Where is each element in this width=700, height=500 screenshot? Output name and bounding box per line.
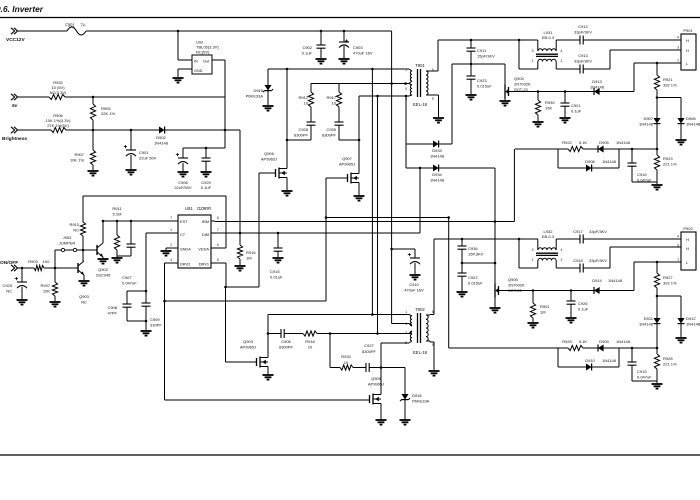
wire sense ch2 [499, 262, 635, 291]
label R907 [70, 152, 85, 162]
svg-text:R912: R912 [298, 95, 308, 100]
label R917 [326, 95, 336, 105]
bottom border rule [0, 454, 700, 456]
diode D933 [433, 141, 439, 148]
label D933 [430, 148, 445, 158]
ground C921 [560, 118, 571, 123]
diode D907 [654, 98, 661, 124]
svg-text:3: 3 [405, 331, 407, 335]
junction B+ C910 [390, 248, 393, 251]
label C915 [270, 269, 283, 279]
svg-text:D918: D918 [412, 393, 422, 398]
svg-text:H: H [686, 246, 689, 251]
labels R925 D909 [562, 339, 631, 344]
svg-text:D933: D933 [432, 148, 442, 153]
svg-text:10K: 10K [43, 288, 50, 293]
svg-text:R928: R928 [663, 356, 673, 361]
svg-text:1N4148: 1N4148 [602, 159, 617, 164]
capacitor C935 [335, 122, 344, 140]
wire to D908 [657, 98, 681, 119]
ground R937 [50, 302, 61, 307]
ground C915 [273, 258, 284, 263]
label D902 [154, 135, 169, 145]
junction C908 bottom [145, 320, 148, 323]
label C906 [174, 180, 192, 190]
svg-text:DRV1: DRV1 [199, 262, 209, 267]
svg-text:1M: 1M [540, 309, 546, 314]
wire sense ch1 [509, 63, 635, 92]
svg-text:D911: D911 [644, 316, 654, 321]
wire DRV2 route [165, 263, 175, 400]
svg-text:1N4148: 1N4148 [616, 339, 631, 344]
label D914 [592, 278, 623, 283]
label R923 [663, 156, 677, 166]
wire gate chain row [268, 332, 412, 335]
label C922 [468, 275, 483, 285]
svg-text:3: 3 [532, 49, 534, 53]
svg-text:Q907: Q907 [342, 156, 353, 161]
label D906 [585, 159, 617, 164]
svg-text:NC(5V): NC(5V) [196, 50, 210, 55]
resistor R905 [90, 104, 95, 120]
capacitor C927 [366, 363, 369, 372]
junction C911/C923 [470, 63, 473, 66]
jumper J953 [55, 248, 83, 251]
label R933 [341, 354, 351, 365]
svg-text:0.1uF: 0.1uF [571, 108, 582, 113]
junction C902 [320, 30, 323, 33]
svg-text:DIM: DIM [202, 232, 209, 237]
ground R928 [652, 384, 663, 389]
svg-text:392 1%: 392 1% [663, 82, 677, 87]
svg-text:0.01uF: 0.01uF [270, 274, 283, 279]
svg-text:Out: Out [203, 60, 210, 64]
resistor R912 [308, 84, 313, 123]
svg-text:EB-0.3: EB-0.3 [542, 234, 555, 239]
svg-text:22uF 50V: 22uF 50V [139, 155, 157, 160]
label C921 [571, 103, 582, 113]
ground Q903 [263, 375, 274, 380]
svg-text:Q903: Q903 [79, 294, 90, 299]
wire ch2 resonant line [434, 238, 538, 240]
svg-text:9: 9 [432, 97, 434, 101]
svg-text:AP9965J: AP9965J [240, 344, 256, 349]
mosfet Q905 2N7002K [495, 284, 499, 298]
svg-text:C925: C925 [2, 283, 12, 288]
svg-text:C923: C923 [477, 78, 487, 83]
svg-text:T901: T901 [415, 63, 425, 68]
transformer T901 [409, 69, 430, 97]
junction C925 [21, 267, 24, 270]
svg-text:8300PF: 8300PF [279, 344, 294, 349]
fuse F901 [67, 27, 86, 35]
junction gate chain [267, 332, 332, 335]
label C916 [637, 172, 652, 182]
label C936 [468, 246, 484, 256]
svg-text:H: H [686, 48, 689, 53]
svg-text:R937: R937 [40, 283, 50, 288]
svg-text:R903: R903 [28, 259, 38, 264]
wire Q906 source [286, 180, 288, 190]
svg-text:D934: D934 [432, 172, 442, 177]
svg-text:C907: C907 [122, 275, 132, 280]
svg-text:15K: 15K [545, 105, 552, 110]
wire to U92 IN [178, 31, 192, 60]
wire VCC12V to fuse [18, 30, 67, 32]
wire C917 to P902 pin4 [583, 238, 681, 240]
wire L931 split [519, 40, 538, 69]
junction R930 [537, 90, 540, 93]
wire sense line 2 [215, 149, 514, 222]
ground R916 [235, 266, 246, 271]
ground Q902 [98, 259, 109, 264]
svg-text:VCC12V: VCC12V [6, 37, 25, 43]
capacitor C922 [458, 263, 467, 291]
label D918 [412, 393, 430, 403]
svg-text:NC: NC [81, 299, 87, 304]
svg-text:P6KE33A: P6KE33A [246, 93, 264, 98]
wire mid node [452, 63, 505, 65]
ground T901 secondary [433, 118, 444, 123]
svg-text:SNDA: SNDA [180, 247, 191, 252]
mosfet Q906 AP9965J [276, 166, 288, 180]
label D910 [585, 358, 617, 363]
label R912 [298, 95, 308, 105]
capacitor C926 [567, 291, 576, 318]
junction R921 bottom [656, 96, 659, 99]
top border rule [0, 17, 700, 19]
svg-text:R911: R911 [112, 206, 122, 211]
label R901 [540, 304, 550, 314]
svg-text:C935: C935 [326, 127, 336, 132]
svg-text:5.1M: 5.1M [113, 211, 122, 216]
label C912 [574, 24, 592, 34]
capacitor C909 [142, 303, 151, 330]
label C917 [573, 229, 607, 234]
svg-text:5.1K: 5.1K [579, 339, 588, 344]
wire sense row ch1 [515, 148, 657, 150]
svg-text:7: 7 [170, 216, 172, 220]
junction drv2 [163, 300, 166, 303]
label Q905 [508, 277, 525, 293]
connector P902 [681, 232, 696, 270]
label F901 7A [65, 23, 85, 28]
svg-text:R922: R922 [562, 140, 572, 145]
B+ bus vertical [392, 31, 409, 324]
junction C936/C922 [461, 262, 464, 265]
resistor R937 [52, 268, 57, 301]
ground C901 [126, 170, 137, 175]
junction R928 top [656, 347, 659, 350]
wire D910 bypass [558, 348, 619, 367]
resistor R933 [340, 365, 353, 370]
wire C912 to P901 pin4 [583, 39, 681, 41]
resistor R901 [530, 291, 535, 323]
svg-text:D908: D908 [686, 116, 696, 121]
ground R911/C907 [112, 258, 123, 263]
junction pin3 bus [376, 95, 379, 98]
junction C935/drain [358, 139, 361, 142]
svg-text:D905: D905 [599, 140, 609, 145]
wire Q909 gate line [165, 399, 370, 400]
ground Q909 [376, 420, 387, 425]
svg-text:R918: R918 [305, 339, 315, 344]
label Q903 NC [79, 294, 90, 304]
junction crossbar B+ [390, 82, 407, 85]
svg-text:NC: NC [73, 227, 79, 232]
transistor Q902 2SC945 [97, 240, 103, 257]
connector ON/OFF input [0, 260, 18, 271]
junction R923 top [656, 148, 659, 151]
wire 5v to R932 [18, 96, 49, 98]
svg-text:22uF/50V: 22uF/50V [174, 185, 192, 190]
U92 pin labels [194, 60, 210, 73]
svg-text:0.015uF: 0.015uF [468, 280, 483, 285]
capacitor C907 [117, 221, 136, 256]
diode D934 [433, 165, 439, 172]
ground D908 [676, 140, 687, 145]
junction EST node [102, 220, 133, 223]
junction rail cap [205, 129, 227, 150]
wire L932 pin2 out [556, 267, 580, 269]
svg-text:5v: 5v [12, 103, 18, 109]
svg-text:C918: C918 [573, 258, 583, 263]
wire Q907 drain [358, 96, 360, 171]
diode D913 [594, 88, 600, 95]
junction Brightness/R907 [92, 129, 95, 132]
svg-text:2: 2 [170, 243, 172, 247]
svg-text:NC: NC [6, 288, 12, 293]
wire Q902 emitter [102, 257, 104, 258]
svg-text:4: 4 [677, 36, 679, 40]
ground C922 [457, 292, 468, 297]
P901 pin labels [686, 38, 689, 66]
wire Q903 source [267, 369, 269, 374]
label C935 [322, 127, 337, 137]
wire D915 to gnd [267, 91, 269, 105]
wire Q903 drain [267, 315, 269, 356]
junction nodeA [286, 68, 374, 71]
capacitor C916 [628, 149, 658, 182]
junction C908 top [145, 290, 148, 293]
label R910 [69, 222, 79, 232]
wire jumper riser [54, 250, 56, 268]
wire D906 bypass [558, 149, 619, 168]
wire DRV1 route [215, 173, 276, 287]
junction mid node ch2 [494, 262, 497, 265]
ground D915 [263, 106, 274, 111]
capacitor C921 [561, 92, 570, 118]
label R937 [40, 283, 50, 293]
svg-text:0.015uF: 0.015uF [477, 83, 492, 88]
capacitor C915 [274, 233, 283, 257]
svg-text:1N4148: 1N4148 [686, 321, 700, 326]
svg-text:C926: C926 [578, 301, 588, 306]
capacitor C923 [467, 64, 476, 94]
label C901 [139, 150, 157, 160]
capacitor C929 [202, 148, 211, 171]
svg-text:Brightness: Brightness [2, 136, 27, 142]
wire fuse to B+ corner [86, 30, 392, 32]
label D911 [639, 316, 654, 326]
diode D911 [654, 296, 661, 324]
capacitor C906b [281, 329, 284, 338]
wire D915 drop [267, 69, 269, 85]
wire L931 pin2 out [556, 68, 580, 70]
wire D918 gnd [404, 400, 406, 419]
svg-text:JUMPER: JUMPER [59, 240, 76, 245]
junction C916 [631, 148, 634, 151]
svg-text:10: 10 [308, 344, 313, 349]
wire DIM line [215, 168, 420, 233]
svg-text:D907: D907 [643, 116, 653, 121]
svg-text:D912: D912 [686, 316, 696, 321]
ground C910 [410, 275, 421, 280]
resistor R907 [90, 130, 95, 170]
wire T901 pin1 node line [268, 69, 412, 71]
svg-text:IBM: IBM [202, 219, 209, 224]
capacitor C918 [580, 264, 583, 273]
capacitor C902 [317, 31, 326, 58]
svg-text:1: 1 [405, 68, 407, 72]
capacitor C906 electrolytic [176, 148, 188, 171]
wire P902 L [634, 261, 681, 263]
label Q906 [261, 151, 277, 161]
P902 pin numbers [677, 235, 679, 262]
ground Q905 [490, 308, 501, 313]
svg-text:AP9965J: AP9965J [368, 381, 384, 386]
mosfet Q903 AP9965J [257, 355, 269, 369]
svg-text:C912: C912 [578, 24, 588, 29]
label C927 [362, 343, 377, 354]
ground Q907 [354, 196, 365, 201]
resistor R910 [80, 196, 85, 250]
mosfet Q904 2N7002K [505, 85, 509, 99]
junction R916 [239, 232, 242, 235]
svg-text:1: 1 [405, 310, 407, 314]
label C926 [578, 301, 589, 311]
wire T902 pin1 line [268, 314, 409, 316]
mosfet Q907 AP9965J [348, 171, 360, 185]
svg-text:8300PF: 8300PF [362, 349, 377, 354]
ground Q906 [282, 191, 293, 196]
svg-text:H: H [686, 38, 689, 43]
svg-text:Q904: Q904 [514, 76, 525, 81]
wire Q904 source [504, 99, 506, 101]
label C909 [150, 317, 162, 327]
junction R921 top [656, 62, 659, 65]
svg-text:D909: D909 [599, 339, 609, 344]
P902 pin labels [686, 237, 689, 265]
svg-text:2SC945: 2SC945 [96, 272, 111, 277]
capacitor C925 [15, 268, 27, 299]
label C923 [477, 78, 492, 88]
capacitor C917 [580, 235, 583, 244]
wire VDDA rail [83, 196, 226, 248]
svg-text:330PF: 330PF [150, 322, 162, 327]
svg-text:D915: D915 [253, 88, 263, 93]
svg-text:VDDA: VDDA [198, 247, 209, 252]
svg-text:4: 4 [677, 235, 679, 239]
svg-text:EST: EST [180, 219, 188, 224]
svg-text:221 1%: 221 1% [663, 161, 677, 166]
wire L932 pin4 out [556, 238, 580, 240]
wire U92 GND [178, 69, 192, 77]
wire C935 to drain [339, 139, 359, 141]
label T902 EEL-19 [413, 350, 428, 355]
L932 pin numbers [532, 248, 563, 262]
connector Brightness input [2, 127, 27, 142]
svg-text:C909: C909 [150, 317, 160, 322]
svg-text:8: 8 [217, 216, 219, 220]
junction R901 [532, 289, 535, 292]
wire Q905 source [494, 298, 496, 308]
capacitor C903 electrolytic [339, 31, 349, 58]
svg-text:1: 1 [170, 228, 172, 232]
svg-text:10: 10 [344, 360, 349, 365]
wire D907 down [656, 124, 658, 149]
svg-text:1: 1 [532, 258, 534, 262]
label R911 [112, 206, 122, 216]
label P901 [683, 28, 693, 33]
capacitor C911 [467, 40, 476, 64]
wire R905 top [92, 97, 94, 104]
svg-text:D914: D914 [592, 278, 602, 283]
svg-text:R933: R933 [341, 354, 351, 359]
label C911 [477, 48, 495, 58]
ground U92 [173, 78, 184, 83]
resistor R917 [336, 84, 341, 123]
junction drv1 corner [224, 286, 227, 289]
junction C921 [564, 90, 567, 93]
label R921 [663, 77, 677, 87]
diode D905 [598, 146, 604, 153]
wire L932 split [519, 239, 538, 268]
wire Q906 drain [286, 69, 288, 166]
svg-text:0.1uF: 0.1uF [578, 306, 589, 311]
wire B+ to C910 [392, 249, 415, 258]
resistor R923 [654, 149, 659, 184]
wire ch2 sense row [449, 347, 657, 349]
svg-text:D910: D910 [585, 358, 595, 363]
svg-text:4: 4 [561, 248, 563, 252]
label Q909 [368, 376, 384, 386]
capacitor C919 [628, 348, 658, 381]
resistor R925 [568, 345, 583, 350]
label U91 [185, 206, 211, 211]
wire D933 line [406, 143, 452, 145]
svg-text:C915: C915 [270, 269, 280, 274]
svg-text:10: 10 [304, 100, 309, 105]
label C907 [122, 275, 137, 285]
svg-text:P901: P901 [683, 28, 693, 33]
svg-text:100: 100 [43, 259, 50, 264]
junction J953/R910 [82, 249, 85, 252]
label D908 [686, 116, 700, 126]
wire Q909 drain riser [381, 343, 409, 392]
U91 pin stubs [174, 221, 215, 263]
svg-text:33pF/3KV: 33pF/3KV [589, 258, 607, 263]
label P902 [683, 226, 693, 231]
U91 pin names [180, 219, 209, 267]
svg-text:D913: D913 [592, 79, 602, 84]
junction D933 vert top [405, 95, 408, 98]
label T902 [415, 307, 425, 312]
label Q907 [339, 156, 355, 166]
wire R932 to U92 out rail [65, 96, 225, 98]
wire sense line branch [326, 218, 449, 349]
label R932 [50, 80, 67, 95]
